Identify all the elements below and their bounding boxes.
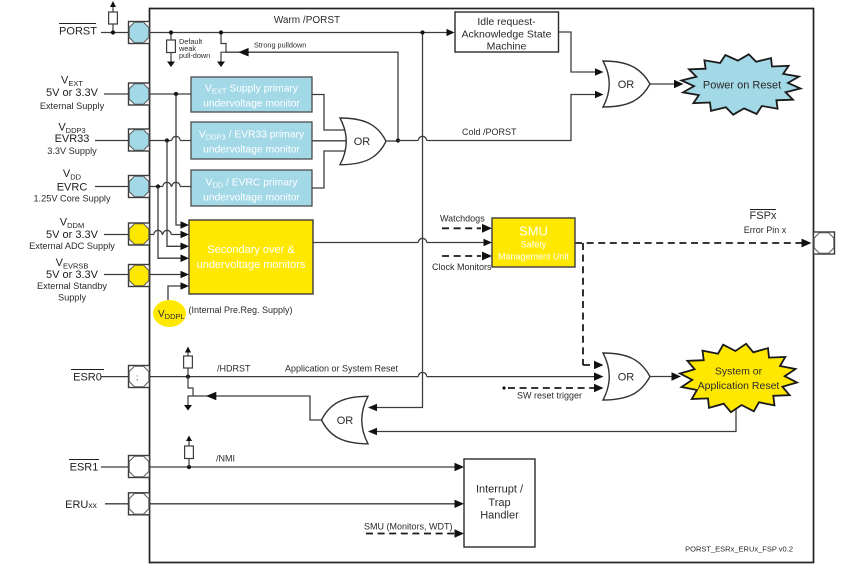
svg-text:undervoltage monitors: undervoltage monitors (197, 259, 306, 271)
svg-text:System or: System or (715, 366, 763, 378)
svg-text:OR: OR (354, 136, 371, 148)
svg-text:FSPx: FSPx (750, 210, 777, 222)
svg-text:Handler: Handler (480, 510, 519, 522)
svg-text:Safety: Safety (521, 240, 547, 250)
svg-text:Supply: Supply (58, 293, 86, 303)
svg-text:undervoltage monitor: undervoltage monitor (203, 193, 300, 204)
svg-text:EVR33: EVR33 (55, 133, 90, 145)
svg-text:VEXT: VEXT (61, 75, 83, 89)
svg-text:ERUxx: ERUxx (65, 499, 97, 511)
svg-text:Acknowledge State: Acknowledge State (462, 29, 552, 41)
svg-text:SMU (Monitors, WDT): SMU (Monitors, WDT) (364, 522, 453, 532)
svg-text:ESR1: ESR1 (70, 462, 99, 474)
svg-text:Secondary over &: Secondary over & (207, 244, 295, 256)
svg-text:Strong pulldown: Strong pulldown (254, 41, 306, 50)
svg-text:Clock Monitors: Clock Monitors (432, 262, 492, 272)
svg-text:Machine: Machine (487, 41, 527, 53)
svg-text:Warm /PORST: Warm /PORST (274, 15, 340, 26)
svg-text:Error Pin x: Error Pin x (744, 225, 787, 235)
svg-text:OR: OR (618, 79, 635, 91)
svg-text:(Internal Pre.Reg. Supply): (Internal Pre.Reg. Supply) (189, 305, 293, 315)
svg-text:3.3V Supply: 3.3V Supply (47, 146, 97, 156)
svg-text:VDDM: VDDM (60, 217, 84, 231)
svg-text:;: ; (136, 373, 138, 382)
svg-text:Interrupt /: Interrupt / (476, 484, 524, 496)
svg-text:Idle request-: Idle request- (477, 16, 536, 28)
svg-text:ESR0: ESR0 (73, 372, 102, 384)
svg-text:Management Unit: Management Unit (498, 252, 570, 262)
svg-text:5V or 3.3V: 5V or 3.3V (46, 87, 99, 99)
svg-text:VDD: VDD (63, 168, 82, 182)
svg-text:External Standby: External Standby (37, 281, 107, 291)
svg-text:EVRC: EVRC (57, 182, 88, 194)
svg-text:External Supply: External Supply (40, 101, 105, 111)
svg-text:Application Reset: Application Reset (698, 380, 780, 392)
svg-text:OR: OR (337, 415, 354, 427)
svg-text:OR: OR (618, 372, 635, 384)
svg-text:/HDRST: /HDRST (217, 364, 251, 374)
svg-text:SMU: SMU (519, 224, 548, 239)
svg-text:/NMI: /NMI (216, 454, 235, 464)
svg-text:undervoltage monitor: undervoltage monitor (203, 99, 300, 110)
svg-text:PORST: PORST (59, 26, 97, 38)
svg-text:5V or 3.3V: 5V or 3.3V (46, 229, 99, 241)
svg-text:Cold /PORST: Cold /PORST (462, 127, 517, 137)
svg-text:PORST_ESRx_ERUx_FSP v0.2: PORST_ESRx_ERUx_FSP v0.2 (685, 545, 793, 554)
svg-text:Trap: Trap (488, 497, 510, 509)
svg-text:pull-down: pull-down (179, 51, 210, 60)
svg-text:SW reset trigger: SW reset trigger (517, 391, 582, 401)
svg-text:1.25V Core Supply: 1.25V Core Supply (33, 194, 111, 204)
svg-text:External ADC Supply: External ADC Supply (29, 241, 115, 251)
svg-text:undervoltage monitor: undervoltage monitor (203, 145, 300, 156)
svg-text:Application or System Reset: Application or System Reset (285, 364, 399, 374)
svg-text:Power on Reset: Power on Reset (703, 80, 781, 92)
svg-text:5V or 3.3V: 5V or 3.3V (46, 269, 99, 281)
svg-text:Watchdogs: Watchdogs (440, 214, 485, 224)
